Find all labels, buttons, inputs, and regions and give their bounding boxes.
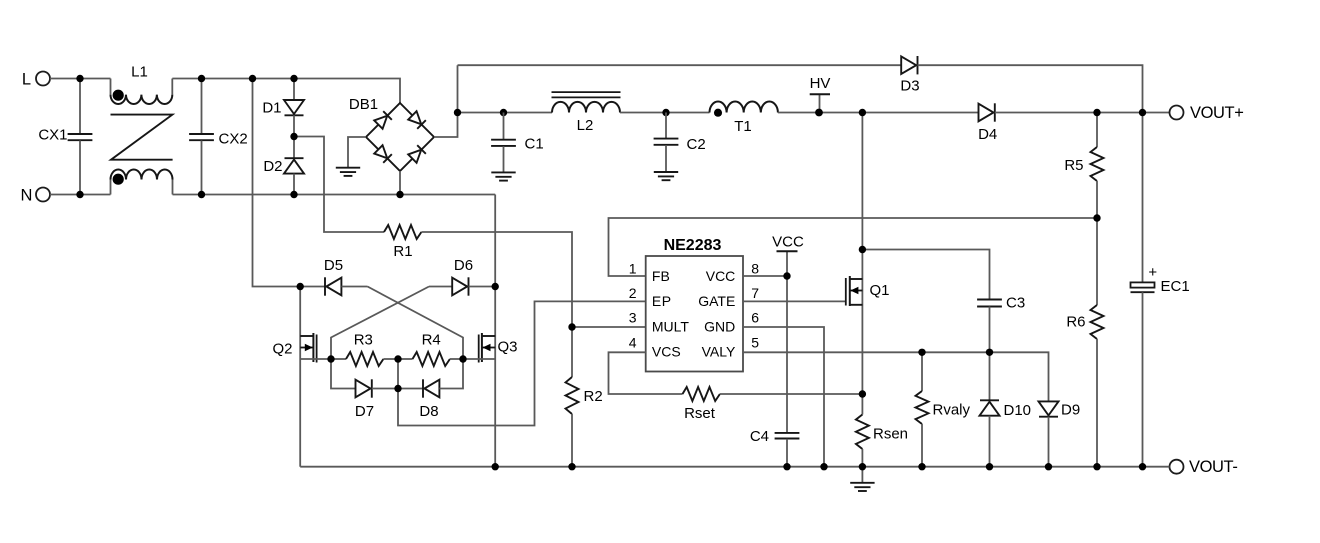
- svg-text:+: +: [1148, 264, 1157, 281]
- pin 7 GATE: [698, 285, 759, 309]
- wire top rail left: [458, 64, 902, 66]
- svg-text:D9: D9: [1061, 401, 1080, 418]
- label DB1: [349, 96, 378, 113]
- svg-text:4: 4: [629, 335, 637, 351]
- wire EP net: [398, 301, 646, 425]
- wire top rail right: [918, 65, 1143, 112]
- wire C4 to rail: [786, 439, 788, 467]
- svg-text:Rset: Rset: [684, 405, 716, 422]
- svg-text:NE2283: NE2283: [664, 237, 722, 254]
- wire crossover D6 to Q2 gate: [331, 287, 429, 360]
- wire pin8 to VCC node: [743, 275, 787, 277]
- pin 2 EP: [629, 285, 672, 309]
- node R2 bottom: [568, 463, 575, 470]
- wire GATE to Q1: [743, 300, 846, 302]
- pin 4 VCS: [629, 335, 681, 360]
- svg-text:VCC: VCC: [706, 268, 736, 284]
- resistor Rsen: [856, 394, 908, 467]
- capacitor CX1: [38, 79, 92, 195]
- L2 core lines: [552, 92, 621, 97]
- wire Q3 gate/source row: [463, 358, 495, 360]
- node Q2 drain: [297, 283, 304, 290]
- pin 1 FB: [629, 260, 670, 284]
- label NE2283: [664, 237, 722, 254]
- ground C1: [491, 172, 515, 180]
- transistor Q3: [479, 195, 518, 467]
- wire Q1 drain to C3: [862, 250, 989, 300]
- svg-text:D10: D10: [1004, 402, 1032, 419]
- wire crossover D5 to Q3 gate: [368, 287, 464, 360]
- svg-text:R3: R3: [354, 332, 373, 349]
- svg-text:Q1: Q1: [870, 282, 890, 299]
- wire bottom rail: [300, 466, 1169, 468]
- inductor L2: [552, 102, 620, 134]
- svg-text:VOUT-: VOUT-: [1189, 458, 1237, 476]
- svg-text:Q3: Q3: [498, 339, 518, 356]
- svg-text:6: 6: [751, 310, 759, 326]
- node D7-D8 center: [394, 385, 401, 392]
- svg-text:5: 5: [751, 335, 759, 351]
- wire DB1 left to ground: [348, 137, 366, 168]
- terminal L: [22, 70, 50, 88]
- svg-text:D7: D7: [355, 403, 374, 420]
- transistor Q1: [846, 250, 890, 395]
- capacitor EC1 (polarized): [1131, 113, 1190, 467]
- wire L1 to DB1 bottom (N rail): [173, 194, 496, 196]
- svg-text:3: 3: [629, 310, 637, 326]
- node Q3 drain: [492, 283, 499, 290]
- wire R1 to R2 top: [421, 232, 572, 327]
- resistor R6: [1066, 218, 1103, 467]
- wire Q1 drain to rail: [861, 113, 863, 250]
- wire main rail segment 1: [458, 112, 553, 114]
- pin 5 VALY: [702, 335, 760, 360]
- node EC1 bottom: [1139, 463, 1146, 470]
- node Q1 drain rail: [859, 109, 866, 116]
- svg-text:1: 1: [629, 260, 637, 276]
- wire DB1 right output: [434, 65, 458, 137]
- node HV: [815, 109, 823, 117]
- svg-text:L: L: [22, 70, 31, 88]
- ground C2: [654, 172, 678, 180]
- svg-text:C3: C3: [1006, 294, 1025, 311]
- node Q1 drain: [859, 246, 866, 253]
- diode D5: [300, 257, 367, 296]
- node R5-R6-FB: [1093, 214, 1100, 221]
- node D2 bottom: [290, 191, 297, 198]
- node R3-R4 center: [394, 355, 401, 362]
- resistor Rvaly: [916, 352, 971, 466]
- svg-text:CX1: CX1: [38, 127, 67, 144]
- svg-text:MULT: MULT: [652, 318, 690, 334]
- svg-text:D6: D6: [454, 257, 473, 274]
- pin 6 GND: [704, 310, 759, 335]
- svg-text:2: 2: [629, 285, 637, 301]
- wire N to CX1/L1: [50, 194, 111, 196]
- DB1 diode upper-right: [408, 111, 426, 129]
- wire Q2 gate/source row: [300, 358, 331, 360]
- diode D3: [900, 56, 919, 95]
- svg-text:FB: FB: [652, 268, 670, 284]
- resistor R5: [1064, 113, 1103, 219]
- capacitor C1: [491, 109, 544, 173]
- svg-text:7: 7: [751, 285, 759, 301]
- wire FB net: [609, 218, 1098, 276]
- inductor L1 bottom winding: [111, 170, 173, 195]
- node D9 bottom: [1045, 463, 1052, 470]
- svg-text:D4: D4: [978, 126, 997, 143]
- diode D2: [263, 137, 304, 195]
- wire GND net: [743, 327, 824, 467]
- resistor Rset: [683, 387, 720, 422]
- node R5 top: [1093, 109, 1100, 116]
- wire D1-D2 node to R1 branch: [294, 137, 384, 233]
- node D1 top: [290, 75, 297, 82]
- svg-text:R2: R2: [584, 388, 603, 405]
- diode D4: [978, 103, 997, 143]
- wire VCS to Rset: [609, 352, 683, 394]
- node VCC: [783, 272, 790, 279]
- terminal HV: [810, 75, 831, 113]
- wire center to D7-D8 row: [397, 359, 399, 389]
- svg-text:DB1: DB1: [349, 96, 378, 113]
- svg-text:D3: D3: [900, 78, 919, 95]
- svg-text:D5: D5: [324, 257, 343, 274]
- pin 3 MULT: [629, 310, 690, 335]
- ground DB1: [336, 168, 360, 176]
- T1 phase dot: [714, 109, 722, 117]
- node EC1 top: [1139, 109, 1146, 116]
- node Rsen bottom: [859, 463, 866, 470]
- diode D7: [331, 359, 398, 420]
- node R4 right: [459, 355, 466, 362]
- node D1-D2: [290, 133, 297, 140]
- L1 top phase dot: [113, 90, 124, 101]
- svg-text:VCC: VCC: [772, 234, 804, 251]
- label L1: [131, 64, 148, 81]
- wire L1 to DB1 top (L rail): [172, 79, 400, 104]
- svg-text:CX2: CX2: [219, 131, 248, 148]
- svg-text:R5: R5: [1064, 157, 1083, 174]
- diode D10: [980, 352, 1032, 466]
- capacitor CX2: [189, 79, 248, 195]
- DB1 diode lower-right: [408, 145, 426, 163]
- svg-text:GATE: GATE: [698, 293, 735, 309]
- node GND rail: [820, 463, 827, 470]
- wire Rset to Q1 source: [720, 393, 863, 395]
- node D10 bottom: [986, 463, 993, 470]
- node CX2 bottom: [198, 191, 205, 198]
- svg-text:D1: D1: [262, 99, 281, 116]
- resistor R4: [398, 332, 463, 366]
- DB1 diode upper-left: [374, 111, 392, 129]
- wire L rail to Q2 drain: [253, 79, 301, 287]
- ground Rsen: [850, 467, 874, 491]
- svg-text:R6: R6: [1066, 314, 1085, 331]
- svg-text:R1: R1: [393, 243, 412, 260]
- node C3-D10: [986, 349, 993, 356]
- wire D4 to VOUT+: [995, 112, 1170, 114]
- svg-text:D2: D2: [263, 158, 282, 175]
- svg-text:HV: HV: [810, 75, 831, 92]
- svg-text:EC1: EC1: [1161, 278, 1190, 295]
- inductor L1 top winding: [111, 79, 173, 104]
- diode D9: [1039, 401, 1081, 466]
- svg-text:Rsen: Rsen: [873, 425, 908, 442]
- wire main rail segment 2: [620, 112, 710, 114]
- node L rail tap: [249, 75, 256, 82]
- node C4 bottom: [783, 463, 790, 470]
- DB1 diode lower-left: [374, 145, 392, 163]
- node Q1 source: [859, 390, 866, 397]
- op-amp U1 NE2283 box: [646, 256, 743, 372]
- L1 core: [111, 115, 173, 160]
- svg-text:R4: R4: [422, 332, 441, 349]
- node Rvaly top: [918, 349, 925, 356]
- svg-text:EP: EP: [652, 293, 672, 309]
- resistor R2: [566, 327, 603, 467]
- node N-CX1: [76, 191, 83, 198]
- svg-text:Q2: Q2: [272, 340, 292, 357]
- capacitor C2: [654, 109, 706, 172]
- node CX2 top: [198, 75, 205, 82]
- node DB1 output: [454, 109, 461, 116]
- diode D8: [398, 359, 463, 420]
- svg-text:L2: L2: [577, 117, 594, 134]
- wire VALY net: [743, 352, 1049, 401]
- diode D6: [429, 257, 495, 296]
- resistor R1: [384, 225, 421, 260]
- bridge rectifier DB1 diamond: [366, 103, 434, 171]
- transistor Q2: [272, 287, 316, 467]
- diode D1: [262, 79, 304, 137]
- capacitor C3: [977, 294, 1025, 311]
- terminal VOUT+: [1170, 104, 1244, 122]
- pin 8 VCC: [706, 260, 760, 284]
- svg-text:C2: C2: [687, 136, 706, 153]
- svg-text:D8: D8: [419, 403, 438, 420]
- svg-text:VALY: VALY: [702, 344, 736, 360]
- node Q3 source rail: [492, 463, 499, 470]
- L1 bottom phase dot: [113, 174, 124, 185]
- svg-text:L1: L1: [131, 64, 148, 81]
- svg-text:GND: GND: [704, 318, 735, 334]
- wire MULT: [572, 326, 646, 328]
- capacitor C4: [750, 428, 800, 445]
- wire VCC node down to C4: [786, 276, 788, 433]
- svg-text:VCS: VCS: [652, 344, 681, 360]
- terminal N: [21, 186, 50, 204]
- wire C3 to VALY: [989, 307, 991, 353]
- svg-text:Rvaly: Rvaly: [933, 401, 971, 418]
- svg-text:N: N: [21, 186, 33, 204]
- node MULT-R2: [568, 323, 575, 330]
- terminal VCC: [772, 234, 804, 277]
- terminal VOUT-: [1170, 458, 1238, 476]
- svg-text:VOUT+: VOUT+: [1190, 104, 1243, 122]
- resistor R3: [331, 332, 398, 366]
- wire main rail segment 3: [778, 112, 979, 114]
- svg-text:T1: T1: [734, 118, 752, 135]
- svg-text:8: 8: [751, 260, 759, 276]
- svg-text:C1: C1: [525, 135, 544, 152]
- node R6 bottom: [1093, 463, 1100, 470]
- wire L to CX1/L1: [50, 78, 111, 80]
- node R3 left: [327, 355, 334, 362]
- node Rvaly bottom: [918, 463, 925, 470]
- node DB1 bottom: [396, 191, 403, 198]
- node L-CX1: [76, 75, 83, 82]
- inductor T1: [710, 102, 778, 136]
- svg-text:C4: C4: [750, 428, 769, 445]
- wire DB1 bottom to N rail: [399, 171, 401, 195]
